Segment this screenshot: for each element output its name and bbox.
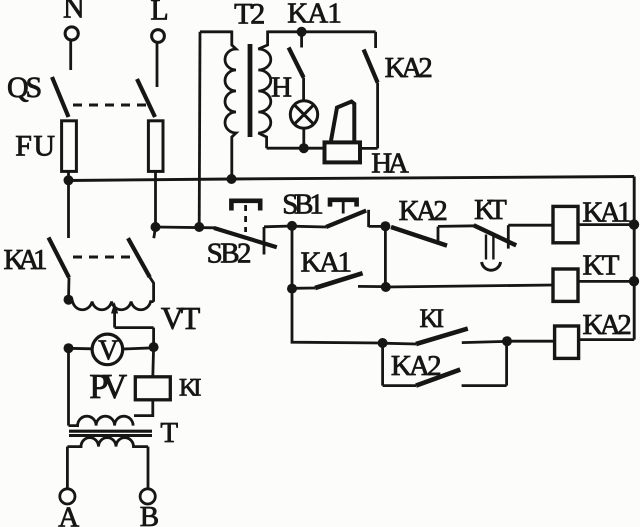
terminal L <box>152 30 165 43</box>
contact KA2 (parallel with KI) <box>383 341 507 385</box>
contact KA1 pole 2 <box>128 227 156 302</box>
wire to KI coil <box>151 347 155 377</box>
contact KT delay symbol <box>482 235 501 271</box>
svg-text:KA2: KA2 <box>399 195 448 227</box>
wire parallel left vertical <box>291 226 294 289</box>
fuse FU2 <box>148 121 163 172</box>
svg-text:KA2: KA2 <box>583 309 632 341</box>
wire coil KA2 right <box>579 338 635 341</box>
wire lamp circuit bottom <box>267 147 324 150</box>
node meter row left <box>64 343 74 353</box>
svg-text:KI: KI <box>420 304 445 333</box>
contact KA2 NC (row2) <box>391 226 476 246</box>
autotransformer VT wiper arrow <box>111 302 154 347</box>
pushbutton SB1 cap <box>330 200 357 207</box>
svg-text:T2: T2 <box>234 0 265 30</box>
wire right rail down <box>633 177 636 340</box>
wire lamp circuit top <box>268 30 376 33</box>
node meter row right <box>149 342 159 352</box>
transformer T secondary winding <box>67 438 148 447</box>
contact KT NC delayed <box>474 225 553 248</box>
pushbutton SB2 cap <box>231 201 260 211</box>
pushbutton SB1 stem <box>342 200 345 214</box>
wire left rail to KA1 contact <box>67 180 70 238</box>
switch QS pole 1 blade <box>52 77 69 117</box>
pushbutton SB2 fixed hook <box>263 227 266 255</box>
svg-text:FU: FU <box>15 130 55 163</box>
svg-text:KT: KT <box>474 194 507 226</box>
wire lamp to bottom <box>302 129 305 148</box>
node bus1-T2 <box>227 174 237 184</box>
svg-text:KA2: KA2 <box>385 52 433 84</box>
transformer T2 primary winding <box>225 31 236 180</box>
fuse FU1 <box>62 121 77 172</box>
coil KT <box>553 269 578 301</box>
transformer T primary winding <box>69 416 134 425</box>
pushbutton SB1 <box>292 210 385 227</box>
svg-text:A: A <box>58 502 79 527</box>
svg-text:T: T <box>160 417 178 449</box>
transformer T2 secondary winding <box>258 31 270 149</box>
wire SB2 to node <box>264 225 292 229</box>
contact KA1 (self-hold) <box>292 273 386 288</box>
transformer T2 core <box>248 44 253 137</box>
svg-text:KI: KI <box>179 375 202 402</box>
voltmeter PV <box>92 334 123 367</box>
terminal N <box>65 27 78 40</box>
svg-text:KA1: KA1 <box>4 244 48 276</box>
contact KA1 pole 1 blade <box>49 238 70 278</box>
node bus2 left <box>151 222 161 232</box>
wire N down <box>69 40 72 70</box>
node lamp bottom <box>299 143 309 153</box>
node parallel right bottom <box>381 282 391 292</box>
pushbutton SB2 stem (dashed) <box>244 205 247 232</box>
wire row3 to KT coil <box>386 285 553 287</box>
coil KA2 <box>555 326 579 358</box>
wire KI coil to T primary <box>134 400 153 416</box>
coil KI <box>135 377 170 400</box>
terminal B <box>140 489 155 504</box>
svg-text:KA1: KA1 <box>287 0 342 30</box>
transformer T core <box>69 431 152 435</box>
svg-text:SB2: SB2 <box>207 237 252 269</box>
wire fuse2 to bus2 <box>154 171 157 227</box>
node lamp top <box>297 27 307 37</box>
node bus1-fuse1 <box>64 175 74 185</box>
svg-text:KT: KT <box>583 250 620 282</box>
wire meter left <box>69 347 93 350</box>
svg-text:VT: VT <box>161 300 201 336</box>
node parallel left bottom <box>287 284 297 294</box>
svg-text:KA1: KA1 <box>301 247 353 279</box>
lamp H <box>290 101 317 128</box>
svg-text:HA: HA <box>371 148 409 180</box>
svg-text:L: L <box>150 0 168 27</box>
node KI row left <box>378 338 388 348</box>
wire pole1 to VT <box>67 278 70 300</box>
terminal A <box>60 489 75 504</box>
svg-text:V: V <box>98 336 118 367</box>
svg-text:SB1: SB1 <box>282 189 324 221</box>
wire secondary right leg <box>147 447 150 489</box>
wire secondary left leg <box>66 447 69 489</box>
buzzer HA body <box>325 142 361 162</box>
svg-text:KA1: KA1 <box>582 197 631 229</box>
node KI row right <box>502 336 512 346</box>
autotransformer VT winding <box>69 300 154 310</box>
svg-text:KA2: KA2 <box>391 350 442 382</box>
wire fuse1 to bus1 <box>67 171 70 181</box>
node right rail KT <box>629 276 639 286</box>
wire to KA2 coil <box>507 340 555 343</box>
wire left rail to transformer T <box>67 348 70 425</box>
svg-text:H: H <box>271 72 292 104</box>
contact KA2 (lamp branch) <box>360 32 378 149</box>
svg-text:QS: QS <box>7 71 42 104</box>
node bus2-T2 <box>194 222 204 232</box>
switch QS tie bar (dashed) <box>73 104 148 107</box>
contact KA1 tie (dashed) <box>73 256 136 259</box>
wire bus1 (N rail) <box>69 177 635 181</box>
wire coil KA1 right <box>578 223 634 226</box>
buzzer HA horn <box>331 102 354 142</box>
node right rail KA1 <box>629 219 639 229</box>
contact KA1 (lamp branch) <box>289 32 304 100</box>
coil KA1 <box>553 206 578 242</box>
switch QS pole 2 blade <box>137 79 155 117</box>
svg-text:PV: PV <box>89 367 127 406</box>
svg-text:B: B <box>140 501 159 527</box>
wire meter right <box>123 348 153 349</box>
wire bus2 left segment <box>156 226 216 230</box>
pushbutton SB2 blade <box>214 228 277 247</box>
wire L down <box>156 42 159 87</box>
transformer T2 left outer wire <box>198 32 202 227</box>
contact KI <box>383 329 507 344</box>
node parallel left top <box>287 221 297 231</box>
svg-text:N: N <box>63 0 85 25</box>
node parallel right top <box>380 221 390 231</box>
wire down-left to KI row <box>292 289 383 343</box>
wire parallel right vertical <box>384 226 387 287</box>
wire T2 top left <box>200 30 232 33</box>
wire coil KT right <box>578 280 634 283</box>
node VT left <box>64 295 74 305</box>
